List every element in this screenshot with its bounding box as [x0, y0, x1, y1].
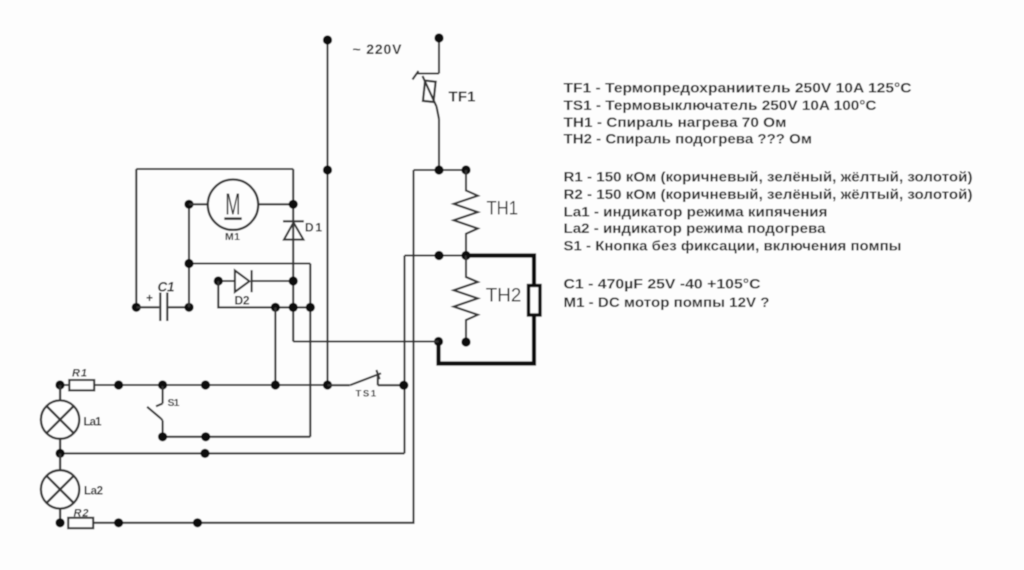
wire 220V right terminal lead [438, 38, 440, 74]
svg-text:+: + [146, 291, 153, 305]
node S1 top [158, 380, 167, 389]
wire main bottom bus [60, 384, 328, 386]
lamp La1 [41, 385, 79, 453]
svg-text:~ 220V: ~ 220V [353, 41, 403, 57]
node motor left [184, 200, 193, 209]
switch TS1 [328, 370, 404, 385]
node fuse output [434, 165, 443, 174]
node 220V left terminal [323, 35, 332, 44]
node motor right [289, 200, 298, 209]
svg-text:M: M [225, 188, 240, 222]
node rail crossing [289, 303, 298, 312]
resistor TH2 [454, 256, 478, 343]
node TH1 top [461, 165, 470, 174]
diode D2 [218, 270, 293, 292]
node TH2 top left [434, 251, 443, 260]
wire S1 bottom row [163, 436, 311, 438]
node motor bottom left [184, 259, 193, 268]
svg-text:TF1 - Термопредохраниитель 250: TF1 - Термопредохраниитель 250V 10A 125°… [564, 81, 912, 96]
fuse TF1 [413, 71, 440, 170]
wire D2 bypass [218, 281, 310, 307]
svg-text:La2 - индикатор режима подогре: La2 - индикатор режима подогрева [564, 221, 827, 236]
node bypass bottom [271, 380, 280, 389]
wire motor left rail [188, 204, 190, 307]
node TS1 right [399, 381, 408, 390]
wire bypass to bus [274, 307, 276, 385]
wire motor left lead [189, 203, 208, 205]
wire long left branch to R2 line [94, 170, 414, 523]
node bus tap 2 [201, 380, 210, 389]
node lamp line tap [200, 449, 209, 458]
svg-text:M1: M1 [225, 231, 240, 243]
svg-text:R2: R2 [74, 508, 89, 520]
wire motor right rail [292, 169, 294, 342]
wire TS1 right riser [403, 256, 405, 454]
node D2 right [289, 276, 298, 285]
wire motor right lead [258, 203, 293, 205]
wire motor bottom row [189, 262, 310, 264]
thermal sensor body [529, 286, 541, 316]
diode D1 [283, 221, 304, 239]
node TH1 bottom [461, 251, 470, 260]
svg-text:C1: C1 [158, 280, 175, 295]
wire junction row under fuse [414, 169, 467, 171]
resistor TH1 [454, 170, 478, 256]
node bypass tap [271, 303, 280, 312]
resistor R2 [68, 518, 93, 528]
svg-text:La2: La2 [84, 486, 103, 498]
node La1 bottom [56, 449, 65, 458]
node S1 bottom [158, 432, 167, 441]
node R2 line tap 1 [114, 518, 123, 527]
svg-text:TH2 - Спираль подогрева ??? Ом: TH2 - Спираль подогрева ??? Ом [564, 132, 813, 147]
wire motor box top edge [136, 168, 293, 170]
svg-text:S1 - Кнопка без фиксации, вклю: S1 - Кнопка без фиксации, включения помп… [564, 239, 902, 254]
node riser crossing [306, 303, 315, 312]
motor M1 circle [208, 180, 258, 230]
wire 220V left rail [326, 40, 328, 385]
svg-text:R1: R1 [72, 368, 87, 380]
wire D1 rail to loop [293, 340, 438, 342]
wire pump switch riser [309, 264, 311, 437]
node S1 row tap [201, 432, 210, 441]
wire motor box left rail [135, 169, 137, 307]
node loop to lamp line [434, 337, 443, 346]
svg-text:La1 - индикатор режима кипячен: La1 - индикатор режима кипячения [564, 205, 828, 220]
svg-text:TS1 - Термовыключатель 250V 10: TS1 - Термовыключатель 250V 10A 100°C [564, 98, 877, 113]
svg-text:TF1: TF1 [449, 89, 476, 106]
node La2 bottom [56, 518, 65, 527]
svg-text:S1: S1 [168, 397, 180, 409]
svg-text:D1: D1 [305, 221, 322, 235]
svg-text:C1 - 470µF 25V -40 +105°C: C1 - 470µF 25V -40 +105°C [564, 277, 761, 292]
node bus left end [55, 380, 64, 389]
node TS1 left [323, 380, 332, 389]
capacitor C1 [136, 293, 189, 322]
switch S1 [147, 386, 163, 437]
svg-text:M1 - DC мотор помпы 12V ?: M1 - DC мотор помпы 12V ? [564, 295, 770, 310]
node bus tap 1 [114, 380, 123, 389]
motor M underline [224, 217, 241, 220]
node C1 left [132, 303, 141, 312]
svg-text:TS1: TS1 [356, 389, 377, 400]
wire TH1-TH2 junction row [405, 254, 467, 256]
node C1 right [184, 303, 193, 312]
resistor R1 [69, 380, 94, 390]
node D2 left [214, 276, 223, 285]
node R2 line tap 2 [193, 518, 202, 527]
lamp La2 [41, 453, 79, 522]
svg-text:D2: D2 [235, 294, 250, 308]
node 220V right terminal [434, 33, 443, 42]
wire lamp return line [60, 452, 405, 454]
node TH2 bottom [461, 337, 470, 346]
svg-text:TH2: TH2 [486, 286, 522, 307]
svg-text:TH1 - Спираль нагрева 70 Ом: TH1 - Спираль нагрева 70 Ом [564, 115, 787, 130]
svg-text:R1 - 150 кОм (коричневый, зелё: R1 - 150 кОм (коричневый, зелёный, жёлты… [564, 169, 973, 184]
svg-text:TH1: TH1 [487, 199, 519, 220]
svg-text:La1: La1 [84, 417, 103, 429]
wire thick thermal-switch loop [439, 256, 535, 364]
svg-text:R2 - 150 кОм (коричневый, зелё: R2 - 150 кОм (коричневый, зелёный, жёлты… [564, 187, 973, 202]
node 220V rail tap [323, 165, 332, 174]
